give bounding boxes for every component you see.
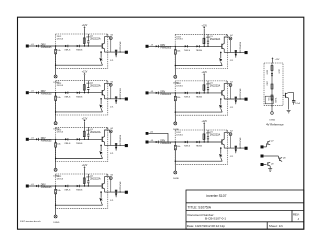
svg-text:S107-inverter-drv.sch: S107-inverter-drv.sch bbox=[20, 220, 42, 223]
svg-text:VO: VO bbox=[267, 98, 269, 101]
svg-text:+12V: +12V bbox=[275, 59, 280, 61]
svg-text:Q8: Q8 bbox=[283, 157, 286, 159]
svg-text:Sheet: 1/1: Sheet: 1/1 bbox=[269, 224, 283, 228]
svg-text:Date: 10/27/2012 08:12:11p: Date: 10/27/2012 08:12:11p bbox=[187, 224, 225, 228]
svg-text:ADJ: ADJ bbox=[270, 98, 273, 102]
svg-text:inverter S107: inverter S107 bbox=[206, 194, 226, 198]
svg-text:B-CB-S107-0-1: B-CB-S107-0-1 bbox=[205, 217, 226, 221]
svg-text:Q9: Q9 bbox=[271, 163, 274, 165]
svg-text:TITLE: S1075/A: TITLE: S1075/A bbox=[188, 205, 212, 209]
svg-text:0.1uF: 0.1uF bbox=[295, 103, 301, 105]
svg-text:TL431: TL431 bbox=[274, 98, 276, 105]
svg-text:DGND: DGND bbox=[270, 119, 276, 121]
svg-text:4V Reference: 4V Reference bbox=[266, 122, 284, 126]
svg-text:REV:: REV: bbox=[293, 212, 300, 216]
